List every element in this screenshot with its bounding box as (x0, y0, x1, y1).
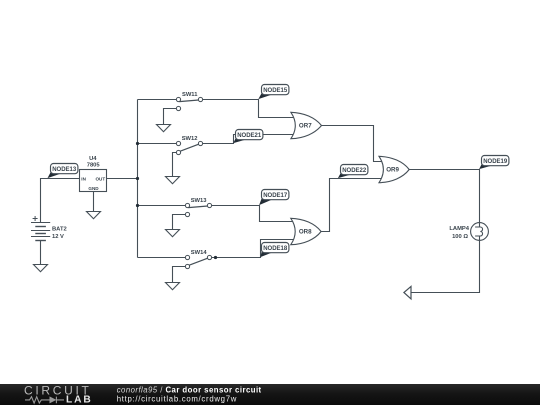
ground SW13 (166, 230, 180, 237)
svg-text:7805: 7805 (87, 163, 101, 169)
svg-text:http://circuitlab.com/crdwg7w: http://circuitlab.com/crdwg7w (117, 394, 237, 403)
wire SW11 to OR7 top input (NODE15 net) (203, 100, 294, 118)
node label NODE19 (479, 156, 509, 170)
switch SW11 (176, 92, 202, 111)
svg-text:NODE18: NODE18 (263, 246, 288, 252)
wire supply bus vertical (137, 100, 139, 258)
ground battery (34, 265, 48, 272)
output arrow terminal (404, 286, 411, 299)
svg-text:NODE19: NODE19 (483, 159, 508, 165)
wire bus to SW11 (138, 99, 177, 101)
svg-text:SW12: SW12 (182, 136, 198, 142)
OR gate OR9 (379, 156, 409, 182)
wire SW14 throw to ground (173, 267, 186, 283)
wire SW12 throw to ground (173, 153, 177, 177)
voltage regulator U4 7805 (80, 156, 107, 192)
wire bus to SW12 (138, 143, 177, 145)
svg-text:SW11: SW11 (182, 92, 198, 98)
node label NODE17 (259, 190, 289, 206)
wire battery to regulator IN (41, 179, 81, 223)
ground SW11 (157, 125, 171, 132)
svg-text:100 Ω: 100 Ω (452, 234, 468, 240)
svg-text:conorfla95 / Car door sensor c: conorfla95 / Car door sensor circuit (117, 385, 262, 394)
svg-text:OR8: OR8 (299, 229, 312, 236)
battery BAT2 12V (31, 216, 67, 241)
node label NODE13 (48, 164, 78, 179)
wire OR7 output to OR9 top input (322, 126, 383, 162)
svg-text:NODE21: NODE21 (237, 133, 262, 139)
svg-text:OR9: OR9 (386, 167, 399, 174)
wire regulator OUT to supply bus (107, 178, 138, 180)
wire SW11 throw to ground (164, 109, 177, 125)
wire OR9 output to lamp (NODE19 net) (409, 170, 479, 224)
svg-text:NODE17: NODE17 (263, 193, 288, 199)
wire OR8 output to OR9 bottom input (NODE22 net) (321, 179, 382, 232)
node label NODE22 (338, 165, 368, 179)
wire bus to SW13 (138, 205, 186, 207)
footer bar with CircuitLab logo and title (0, 384, 540, 405)
OR gate OR8 (291, 218, 321, 244)
wire regulator GND pin (93, 192, 95, 212)
svg-text:OUT: OUT (95, 176, 105, 181)
switch SW13 (185, 198, 211, 217)
wire SW12 to OR7 bottom input (NODE21 net) (203, 135, 294, 144)
node label NODE15 (258, 85, 289, 100)
wire SW14 to OR8 bottom input (NODE18 net) (212, 240, 294, 258)
svg-text:NODE13: NODE13 (52, 167, 77, 173)
junction bus-OUT (136, 177, 139, 180)
svg-text:SW14: SW14 (191, 250, 208, 256)
svg-text:IN: IN (81, 176, 86, 181)
svg-text:GND: GND (88, 186, 99, 191)
svg-text:NODE22: NODE22 (342, 168, 367, 174)
ground SW12 (166, 177, 180, 184)
junction bus-SW12 (136, 142, 139, 145)
svg-text:NODE15: NODE15 (263, 88, 288, 94)
switch SW14 (185, 250, 211, 268)
svg-text:OR7: OR7 (299, 123, 312, 130)
wire bus to SW14 (138, 257, 186, 259)
svg-text:U4: U4 (89, 156, 97, 162)
switch SW12 (176, 136, 202, 155)
node label NODE21 (233, 130, 263, 144)
svg-text:BAT2: BAT2 (52, 227, 67, 233)
lamp LAMP4 100ohm (449, 223, 488, 241)
wire SW13 throw to ground (173, 215, 186, 230)
junction bus-SW13 (136, 204, 139, 207)
ground regulator (87, 212, 101, 219)
node label NODE18 (260, 243, 289, 258)
junction SW14 output (214, 256, 217, 259)
svg-text:12 V: 12 V (52, 234, 64, 240)
wire SW13 to OR8 top input (NODE17 net) (212, 206, 294, 222)
svg-text:SW13: SW13 (191, 198, 208, 204)
OR gate OR7 (291, 112, 322, 138)
wire lamp to output arrow (411, 240, 480, 293)
svg-text:LAMP4: LAMP4 (449, 226, 469, 232)
svg-text:LAB: LAB (66, 395, 93, 405)
ground SW14 (166, 283, 180, 290)
wire battery to ground (40, 241, 42, 265)
